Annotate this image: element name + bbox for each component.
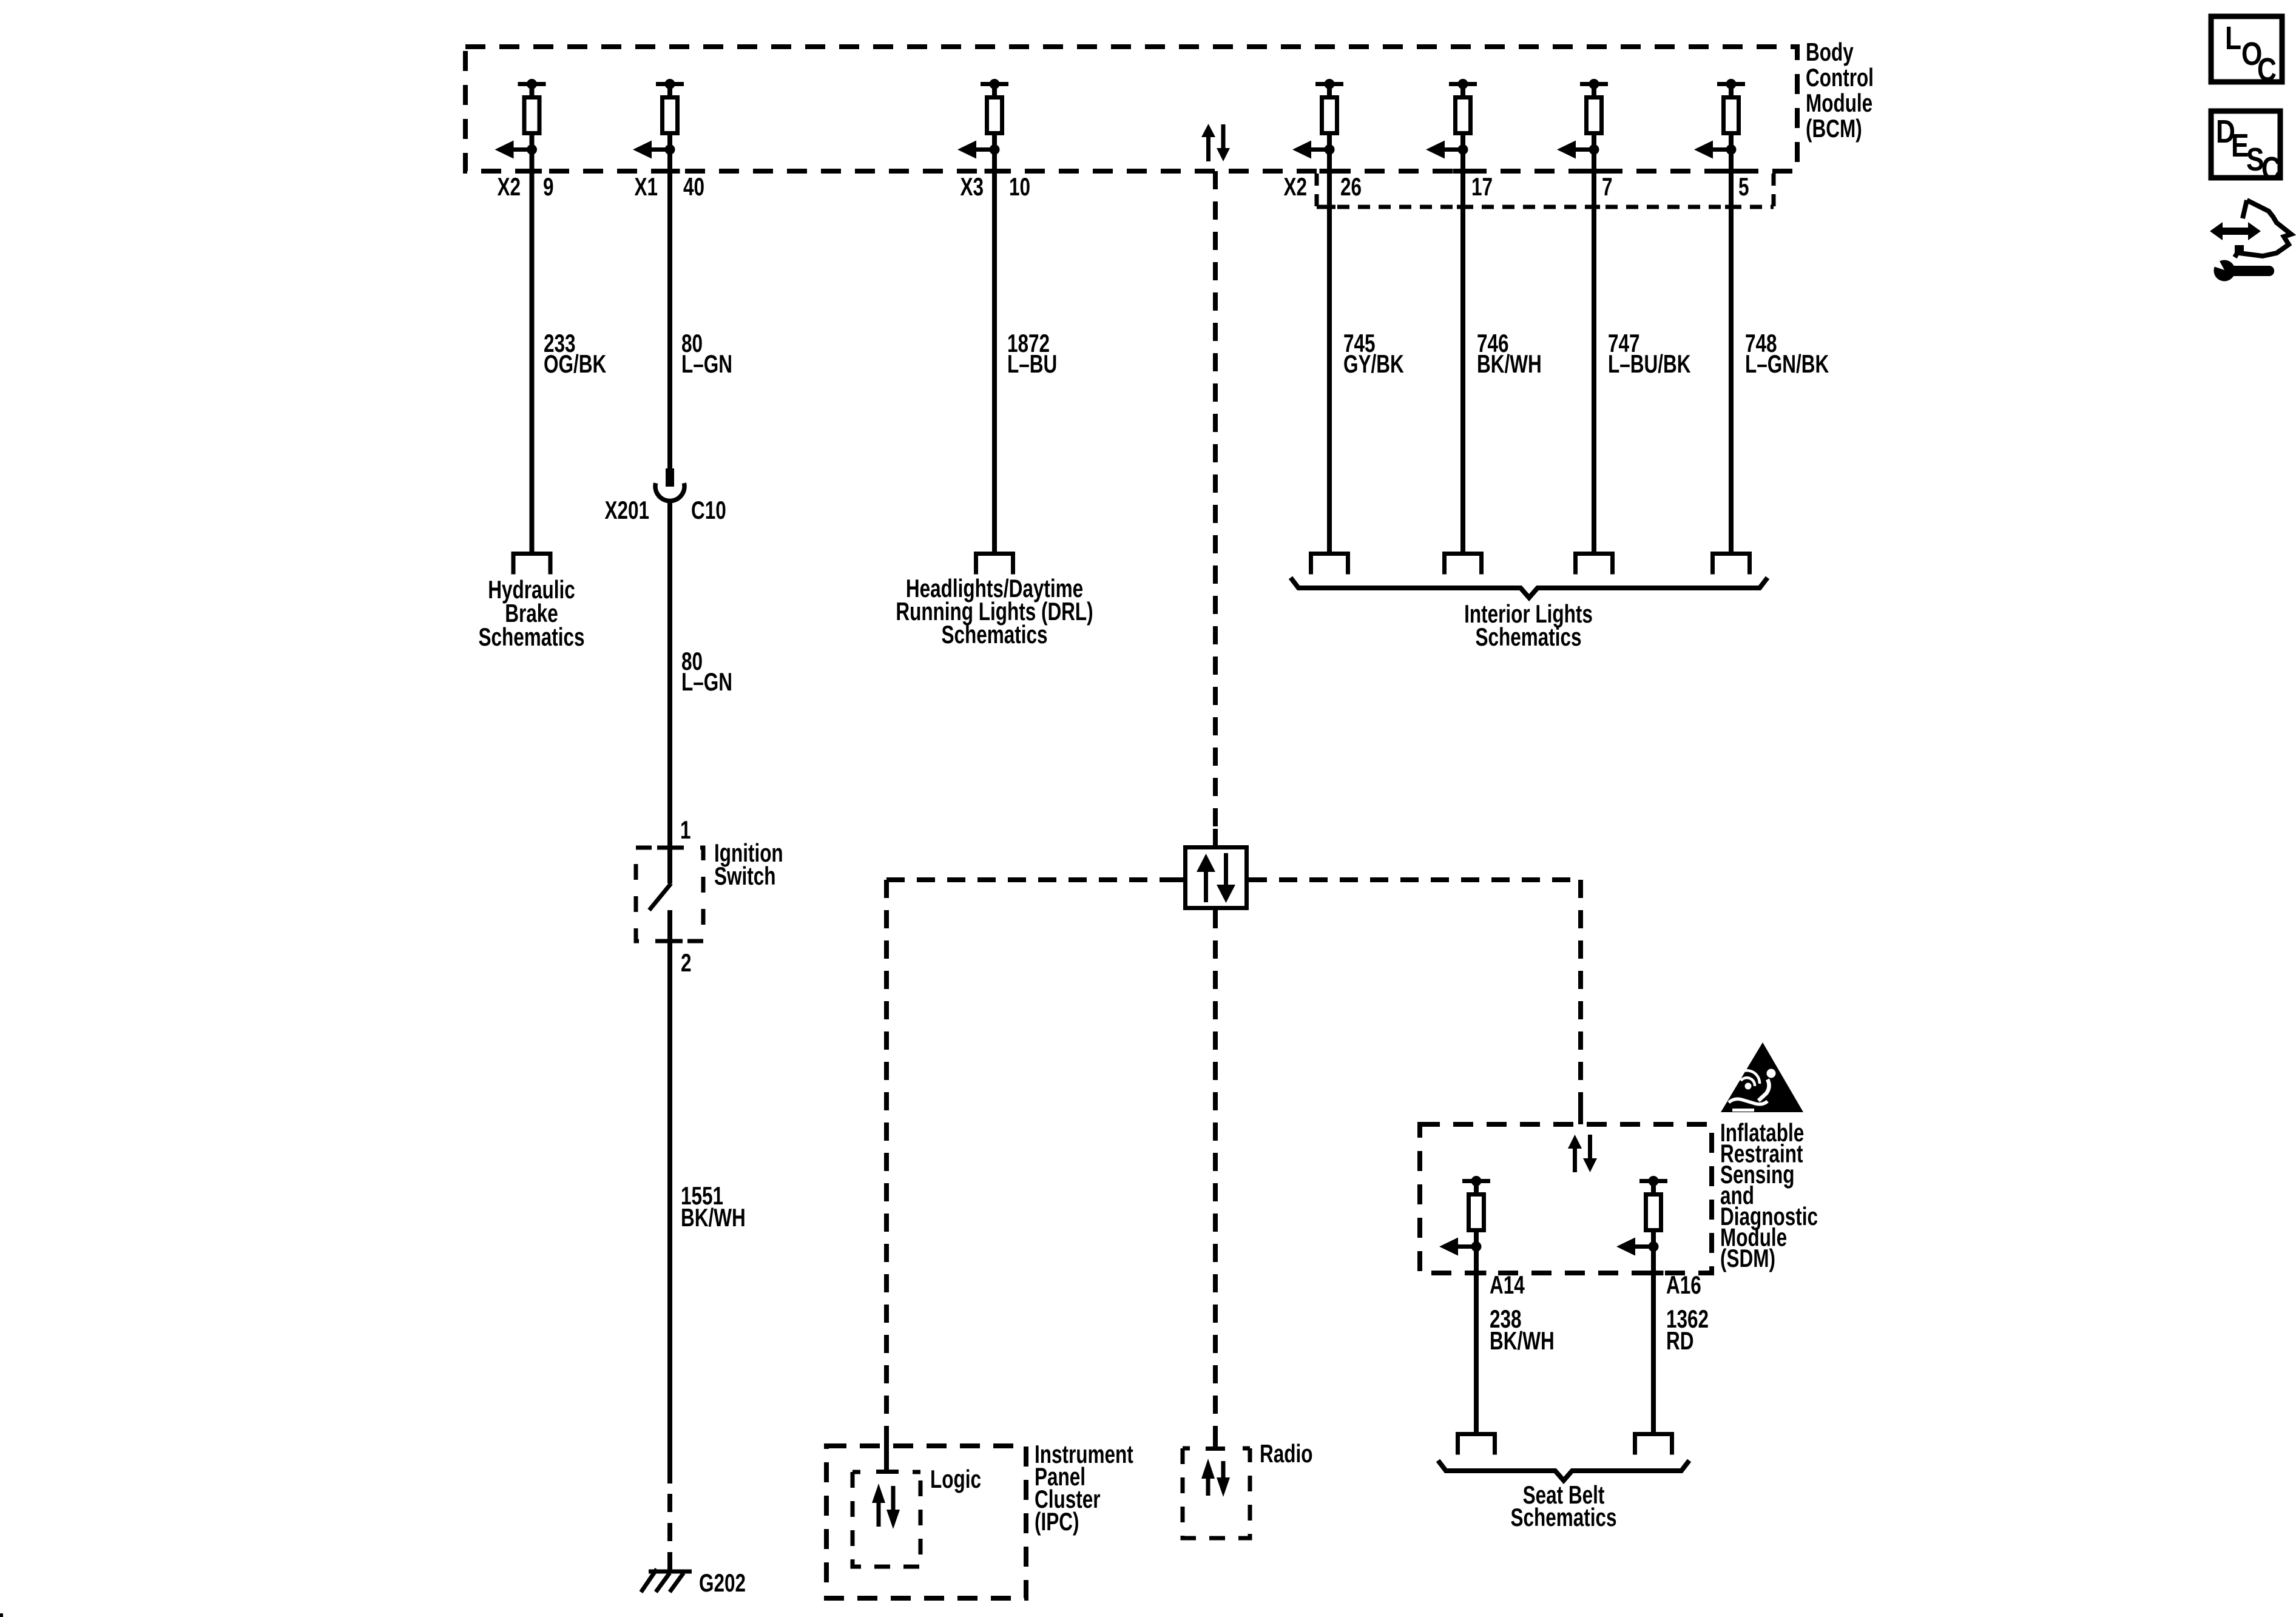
svg-text:L–GN: L–GN	[681, 667, 732, 697]
svg-text:L–BU/BK: L–BU/BK	[1608, 349, 1691, 379]
svg-text:1: 1	[680, 815, 691, 845]
svg-text:C: C	[2257, 52, 2277, 88]
svg-text:A16: A16	[1666, 1271, 1701, 1300]
svg-text:BK/WH: BK/WH	[1477, 349, 1542, 379]
svg-text:40: 40	[683, 172, 704, 201]
svg-text:BK/WH: BK/WH	[681, 1203, 746, 1232]
svg-text:Schematics: Schematics	[1510, 1503, 1616, 1532]
svg-text:10: 10	[1009, 172, 1030, 201]
svg-text:Module: Module	[1806, 89, 1872, 118]
svg-text:A14: A14	[1490, 1271, 1525, 1300]
svg-text:L–GN/BK: L–GN/BK	[1745, 349, 1829, 379]
svg-text:(SDM): (SDM)	[1720, 1244, 1775, 1273]
svg-text:X1: X1	[634, 172, 658, 201]
svg-text:5: 5	[1738, 172, 1749, 201]
svg-text:Schematics: Schematics	[478, 623, 584, 652]
svg-text:Radio: Radio	[1260, 1439, 1312, 1468]
svg-text:9: 9	[543, 172, 554, 201]
svg-text:7: 7	[1602, 172, 1613, 201]
svg-text:L–BU: L–BU	[1007, 349, 1057, 379]
svg-text:BK/WH: BK/WH	[1490, 1326, 1555, 1355]
svg-text:Body: Body	[1806, 38, 1854, 67]
svg-text:X201: X201	[604, 496, 649, 525]
svg-text:Logic: Logic	[930, 1465, 981, 1494]
svg-text:C10: C10	[691, 496, 726, 525]
svg-text:C: C	[2261, 150, 2281, 187]
svg-text:Switch: Switch	[714, 862, 775, 891]
svg-text:X2: X2	[1283, 172, 1307, 201]
svg-text:Control: Control	[1806, 63, 1874, 92]
svg-text:L–GN: L–GN	[681, 349, 732, 379]
svg-text:2: 2	[681, 948, 692, 977]
svg-text:X2: X2	[497, 172, 521, 201]
svg-text:G202: G202	[699, 1568, 746, 1598]
svg-text:17: 17	[1471, 172, 1493, 201]
svg-text:X3: X3	[960, 172, 984, 201]
svg-text:(IPC): (IPC)	[1035, 1507, 1079, 1536]
svg-text:26: 26	[1340, 172, 1362, 201]
svg-text:L: L	[2225, 20, 2241, 56]
svg-text:Schematics: Schematics	[1475, 623, 1581, 652]
svg-text:OG/BK: OG/BK	[544, 349, 606, 379]
svg-text:GY/BK: GY/BK	[1343, 349, 1404, 379]
svg-text:Schematics: Schematics	[941, 620, 1047, 649]
svg-text:(BCM): (BCM)	[1806, 114, 1862, 143]
svg-text:RD: RD	[1666, 1326, 1693, 1355]
